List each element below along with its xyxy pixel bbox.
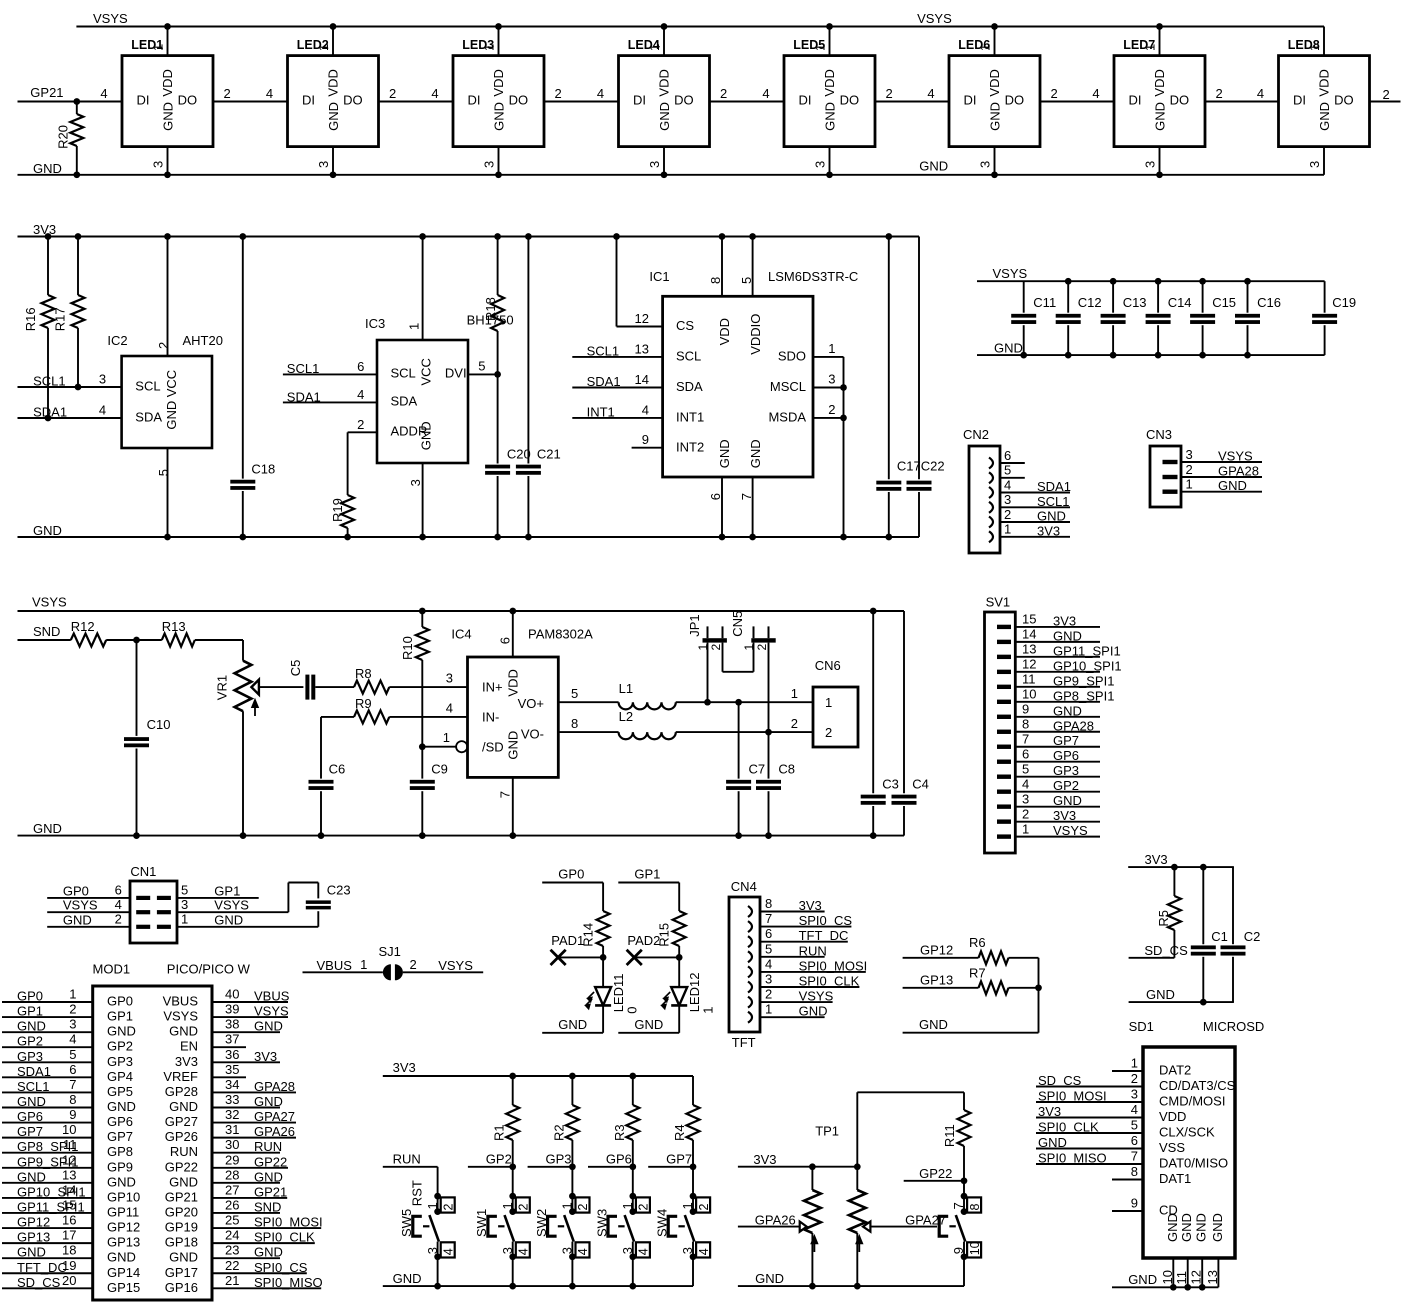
wire GND (LED12) — [618, 1032, 679, 1034]
junction 3V3/IC2 — [164, 233, 171, 240]
junction GND/pot2 — [854, 1283, 861, 1290]
connector SV1 pin 3 pad — [997, 804, 1011, 808]
inductor L1 — [619, 681, 676, 709]
svg-text:R12: R12 — [71, 619, 95, 634]
svg-text:2: 2 — [1186, 462, 1193, 477]
svg-text:R6: R6 — [969, 935, 986, 950]
wire SDO/MSCL/MSDA tie — [813, 356, 844, 358]
junction 3V3/IC3 — [419, 233, 426, 240]
junction SW3 pin top — [629, 1193, 636, 1200]
switch SW4 — [655, 1197, 711, 1257]
wire INT1 to IC1 — [572, 417, 662, 419]
svg-text:JP1: JP1 — [687, 614, 702, 636]
svg-text:1: 1 — [407, 323, 422, 330]
svg-text:2: 2 — [441, 1204, 455, 1211]
solder jumper SJ1 — [360, 944, 417, 980]
svg-text:GND: GND — [1165, 1213, 1180, 1242]
svg-text:CN3: CN3 — [1146, 427, 1172, 442]
wire SW1 to GND — [512, 1257, 514, 1286]
wire CN4 pin 3 — [760, 986, 859, 988]
junction pin bottom — [961, 1253, 968, 1260]
svg-text:VBUS: VBUS — [317, 958, 353, 973]
junction GND/IC4 — [509, 832, 516, 839]
inductor L2 — [619, 709, 676, 739]
svg-text:GP3: GP3 — [107, 1054, 133, 1069]
svg-text:R2: R2 — [551, 1124, 566, 1141]
svg-text:IC2: IC2 — [107, 333, 127, 348]
svg-text:CD/DAT3/CS: CD/DAT3/CS — [1159, 1078, 1236, 1093]
svg-text:GP26: GP26 — [165, 1129, 198, 1144]
wire CN1 pin5 stub — [177, 897, 259, 899]
svg-text:GND: GND — [994, 341, 1023, 356]
wire SV1 pin 3 — [1015, 806, 1100, 808]
switch SW1 pin stubs — [512, 1196, 514, 1212]
svg-text:15: 15 — [1022, 612, 1036, 627]
wire CN4 pin 1 — [760, 1016, 825, 1018]
svg-text:SDA1: SDA1 — [17, 1064, 51, 1079]
wire GND SD1 — [1112, 1286, 1218, 1288]
resistor R19 — [330, 495, 354, 537]
junction VSYS/LED1 — [164, 23, 171, 30]
svg-text:3V3: 3V3 — [1145, 852, 1168, 867]
wire SD1 pin 9 CD — [1112, 1210, 1143, 1212]
svg-text:C7: C7 — [749, 762, 766, 777]
svg-text:GP14: GP14 — [107, 1265, 140, 1280]
resistor R14 — [580, 911, 609, 957]
resistor R1 — [492, 1076, 520, 1167]
LED LED12 — [662, 973, 716, 1014]
svg-text:GND: GND — [164, 401, 179, 430]
svg-text:VBUS: VBUS — [254, 989, 290, 1004]
capacitor C3 — [861, 611, 899, 836]
junction 3V3/R18 — [494, 233, 501, 240]
svg-text:2: 2 — [389, 86, 396, 101]
connector SV1 pin 5 pad — [997, 775, 1011, 779]
svg-text:6: 6 — [1022, 747, 1029, 762]
IC U IC2 AHT20 — [99, 333, 223, 476]
svg-text:SD1: SD1 — [1129, 1019, 1154, 1034]
wire CN4 pin 7 — [760, 926, 851, 928]
svg-text:1: 1 — [181, 912, 188, 927]
svg-text:VSYS: VSYS — [63, 898, 98, 913]
wire GP3 — [528, 1166, 573, 1168]
junction 3V3/R3 — [629, 1073, 636, 1080]
wire IC2 GND pin5 — [167, 448, 169, 537]
svg-text:GND: GND — [254, 1245, 283, 1260]
svg-text:1: 1 — [1186, 477, 1193, 492]
svg-text:GND: GND — [63, 912, 92, 927]
junction VSYS/C3 — [870, 608, 877, 615]
svg-text:GND: GND — [1152, 102, 1167, 131]
capacitor C9 — [410, 747, 448, 836]
svg-text:5: 5 — [478, 359, 485, 374]
svg-text:IC3: IC3 — [365, 316, 385, 331]
svg-text:VSYS: VSYS — [1053, 823, 1088, 838]
wire VSYS rail top — [76, 26, 1324, 28]
wire R11 to TP1 switch — [963, 1181, 965, 1196]
svg-text:GP7: GP7 — [666, 1152, 692, 1167]
junction 3V3/VDD — [719, 233, 726, 240]
junction VSYS/IC4 — [509, 608, 516, 615]
svg-text:12: 12 — [1189, 1270, 1204, 1284]
svg-text:GP22: GP22 — [165, 1159, 198, 1174]
svg-text:2: 2 — [886, 86, 893, 101]
wire R9 to C6 — [321, 716, 354, 718]
svg-text:1: 1 — [1142, 44, 1157, 51]
junction SD1 GND pin 12 — [1199, 1284, 1206, 1291]
svg-text:GP2: GP2 — [486, 1152, 512, 1167]
svg-text:R5: R5 — [1156, 910, 1171, 927]
svg-text:PAD2: PAD2 — [627, 933, 660, 948]
wire SW2 to GND — [571, 1257, 573, 1286]
svg-text:C13: C13 — [1123, 295, 1147, 310]
svg-text:PICO/PICO W: PICO/PICO W — [167, 962, 251, 977]
svg-text:7: 7 — [765, 911, 772, 926]
junction SW4 pivot — [690, 1208, 697, 1215]
wire MOD1 pin 2 — [2, 1016, 93, 1018]
svg-text:SPI0_MOSI: SPI0_MOSI — [1038, 1089, 1107, 1104]
svg-text:SV1: SV1 — [986, 595, 1011, 610]
svg-text:3: 3 — [647, 161, 662, 168]
svg-text:GND: GND — [33, 161, 62, 176]
svg-text:GND: GND — [1053, 793, 1082, 808]
svg-text:16: 16 — [62, 1213, 76, 1228]
svg-text:GND: GND — [17, 1169, 46, 1184]
wire CN2 pin 2 — [1000, 521, 1070, 523]
svg-text:1: 1 — [825, 695, 832, 710]
wire SD1 pin 1 — [1112, 1070, 1143, 1072]
junction GP7/R4 — [690, 1163, 697, 1170]
junction GP6/R3 — [629, 1163, 636, 1170]
svg-text:C16: C16 — [1257, 295, 1281, 310]
svg-text:2: 2 — [357, 417, 364, 432]
resistor R2 — [551, 1076, 579, 1167]
junction GND/C21 — [525, 534, 532, 541]
wire SV1 pin 12 — [1015, 671, 1100, 673]
junction GP21/R20 — [73, 98, 80, 105]
svg-text:C3: C3 — [882, 777, 899, 792]
svg-text:1: 1 — [1307, 44, 1322, 51]
switch SW1 — [474, 1197, 530, 1257]
svg-text:GP0: GP0 — [107, 994, 133, 1009]
wire MOD1 pin 31 — [212, 1137, 296, 1139]
svg-text:3V3: 3V3 — [1038, 1104, 1061, 1119]
svg-text:GP8_SPI1: GP8_SPI1 — [1053, 688, 1114, 703]
svg-text:GP15: GP15 — [107, 1280, 140, 1295]
svg-text:2: 2 — [115, 912, 122, 927]
svg-text:VSYS: VSYS — [32, 595, 67, 610]
svg-text:4: 4 — [357, 387, 364, 402]
IC U IC4 PAM8302A — [443, 627, 593, 799]
LED module LED6 — [927, 27, 1057, 175]
svg-text:INT1: INT1 — [676, 409, 704, 424]
wire GP7 — [648, 1166, 693, 1168]
wire SD1 GND pin 11 — [1187, 1258, 1189, 1287]
svg-text:8: 8 — [1022, 717, 1029, 732]
svg-text:2: 2 — [825, 725, 832, 740]
junction 3V3/R2 — [569, 1073, 576, 1080]
svg-text:26: 26 — [225, 1197, 239, 1212]
junction 3V3/R16 — [45, 233, 52, 240]
wire MOD1 pin 35 — [212, 1076, 246, 1078]
capacitor C19 — [1312, 281, 1356, 355]
svg-text:R18: R18 — [483, 297, 498, 321]
svg-text:GND: GND — [634, 1017, 663, 1032]
svg-text:R20: R20 — [55, 125, 70, 149]
junction VSYS/LED4 — [661, 23, 668, 30]
wire CN5 pin2 down — [768, 643, 770, 733]
svg-text:C9: C9 — [431, 762, 448, 777]
svg-text:GND: GND — [822, 102, 837, 131]
wire R2 to SW2 — [571, 1167, 573, 1196]
svg-text:3: 3 — [1004, 492, 1011, 507]
switch SW3 — [594, 1197, 650, 1257]
svg-text:17: 17 — [62, 1228, 76, 1243]
junction GND/C3 — [870, 832, 877, 839]
wire SW3 to GND — [632, 1257, 634, 1286]
wire GP13 — [903, 987, 979, 989]
svg-text:3: 3 — [316, 161, 331, 168]
wire SV1 pin 9 — [1015, 716, 1100, 718]
svg-text:8: 8 — [1131, 1164, 1138, 1179]
connector SV1 pin 9 pad — [997, 715, 1011, 719]
svg-text:1: 1 — [828, 341, 835, 356]
svg-text:DAT2: DAT2 — [1159, 1063, 1191, 1078]
junction SW3 pivot — [629, 1208, 636, 1215]
resistor R12 — [71, 619, 106, 647]
potentiometer GPA26 wiper arrow — [800, 1222, 807, 1232]
wire JP1 pin1 down — [707, 643, 709, 703]
svg-text:GND: GND — [107, 1174, 136, 1189]
svg-text:GND: GND — [393, 1271, 422, 1286]
svg-text:6: 6 — [765, 926, 772, 941]
svg-text:1: 1 — [812, 44, 827, 51]
svg-text:GND: GND — [919, 159, 948, 174]
svg-text:1: 1 — [360, 957, 367, 972]
svg-text:3: 3 — [181, 897, 188, 912]
wire IC1 VDD pin8 — [721, 237, 723, 297]
wire SJ1 to VSYS — [403, 971, 483, 973]
junction 3V3/R1 — [509, 1073, 516, 1080]
svg-text:DO: DO — [1334, 93, 1354, 108]
svg-text:6: 6 — [357, 359, 364, 374]
wire SW5 to GND — [437, 1257, 439, 1286]
svg-text:3V3: 3V3 — [254, 1049, 277, 1064]
svg-text:2: 2 — [576, 1204, 590, 1211]
svg-text:GND: GND — [33, 523, 62, 538]
svg-text:GP11: GP11 — [107, 1204, 139, 1219]
wire GND rail sensors — [18, 536, 920, 538]
junction GND/SW5 — [434, 1283, 441, 1290]
svg-text:GND: GND — [657, 102, 672, 131]
svg-text:R8: R8 — [355, 666, 372, 681]
wire IC1 GND pin7 — [752, 477, 754, 537]
svg-text:37: 37 — [225, 1032, 239, 1047]
svg-text:R13: R13 — [162, 619, 186, 634]
svg-text:2: 2 — [697, 1204, 711, 1211]
junction GND/LED2 — [330, 171, 337, 178]
capacitor C4 — [892, 611, 929, 836]
capacitor C1 — [1191, 867, 1228, 1002]
wire SV1 pin 11 — [1015, 686, 1100, 688]
svg-text:GPA26: GPA26 — [254, 1124, 295, 1139]
connector CN6 — [791, 658, 858, 747]
svg-text:GP19: GP19 — [165, 1220, 198, 1235]
svg-text:GP3: GP3 — [17, 1049, 43, 1064]
svg-text:9: 9 — [642, 432, 649, 447]
wire MOD1 pin 7 — [2, 1091, 93, 1093]
svg-text:2: 2 — [791, 716, 798, 731]
svg-text:VDD: VDD — [506, 669, 521, 696]
capacitor C13 — [1101, 281, 1147, 355]
svg-text:TFT_DC: TFT_DC — [799, 928, 849, 943]
wire SD1 pin 5 — [1036, 1132, 1143, 1134]
svg-text:10: 10 — [1022, 687, 1036, 702]
resistor R15 — [657, 911, 686, 957]
connector CN4 pin 3 hook — [748, 982, 752, 993]
junction VSYS/LED3 — [495, 23, 502, 30]
svg-text:GP2: GP2 — [107, 1039, 133, 1054]
svg-text:GND: GND — [1037, 509, 1066, 524]
svg-text:1: 1 — [443, 730, 450, 745]
wire GP0 branch top — [542, 882, 603, 884]
svg-text:4: 4 — [642, 402, 649, 417]
svg-text:GP8: GP8 — [107, 1144, 133, 1159]
junction SW1 pin bottom — [509, 1253, 516, 1260]
svg-text:VDD: VDD — [1152, 69, 1167, 96]
svg-text:GND: GND — [107, 1024, 136, 1039]
svg-text:10: 10 — [968, 1241, 982, 1255]
svg-text:DI: DI — [468, 93, 481, 108]
svg-text:2: 2 — [156, 342, 171, 349]
svg-text:VDD: VDD — [822, 69, 837, 96]
svg-text:GP3: GP3 — [545, 1152, 571, 1167]
svg-text:DO: DO — [1005, 93, 1025, 108]
svg-text:4: 4 — [69, 1032, 76, 1047]
svg-text:MSDA: MSDA — [768, 409, 806, 424]
LED module LED5 — [762, 27, 892, 175]
capacitor C8 — [756, 732, 795, 836]
svg-text:3: 3 — [978, 161, 993, 168]
svg-text:CN4: CN4 — [731, 879, 757, 894]
connector SV1 pin 11 pad — [997, 685, 1011, 689]
capacitor C12 — [1056, 281, 1102, 355]
junction R6/R7 — [1035, 984, 1042, 991]
wire CN4 pin 4 — [760, 971, 866, 973]
svg-text:GP13: GP13 — [920, 973, 953, 988]
svg-text:3: 3 — [1131, 1087, 1138, 1102]
svg-text:SPI0_CS: SPI0_CS — [799, 913, 853, 928]
capacitor C22 — [907, 237, 945, 538]
svg-text:C2: C2 — [1244, 929, 1261, 944]
svg-text:1: 1 — [765, 1002, 772, 1017]
svg-text:SCL1: SCL1 — [1037, 494, 1070, 509]
svg-text:32: 32 — [225, 1107, 239, 1122]
wire MOD1 pin 22 — [212, 1272, 307, 1274]
svg-text:VSYS: VSYS — [163, 1009, 198, 1024]
wire GND (R6/R7) — [903, 1032, 1039, 1034]
wire DO-DI link — [875, 101, 949, 103]
svg-text:GND: GND — [1210, 1213, 1225, 1242]
wire MOD1 pin 21 — [212, 1287, 321, 1289]
svg-text:2: 2 — [765, 987, 772, 1002]
wire MOD1 pin 12 — [2, 1167, 93, 1169]
connector CN4 pin 5 hook — [748, 951, 752, 962]
svg-text:VSYS: VSYS — [93, 11, 128, 26]
svg-text:SPI0_MISO: SPI0_MISO — [1038, 1151, 1107, 1166]
wire SD1 pin 3 — [1036, 1101, 1143, 1103]
connector SV1 pin 8 pad — [997, 730, 1011, 734]
resistor R4 — [672, 1076, 700, 1167]
junction 3V3/C17 — [885, 233, 892, 240]
svg-text:VSYS: VSYS — [917, 11, 952, 26]
svg-text:0: 0 — [625, 1007, 640, 1014]
junction GND/C14 — [1155, 352, 1162, 359]
potentiometer GPA26 body — [804, 1167, 821, 1286]
svg-text:R19: R19 — [330, 498, 345, 522]
wire CN2 pin 5 — [1000, 477, 1025, 479]
svg-text:GND: GND — [418, 421, 433, 450]
svg-text:GP6: GP6 — [1053, 748, 1079, 763]
junction SD1 GND pin 11 — [1184, 1284, 1191, 1291]
svg-text:DI: DI — [964, 93, 977, 108]
svg-text:GP18: GP18 — [165, 1235, 198, 1250]
wire DO-DI link — [710, 101, 784, 103]
connector SV1 pin 1 pad — [997, 834, 1011, 838]
junction SW5 pin bottom — [434, 1253, 441, 1260]
wire 3V3 SD — [1128, 866, 1234, 868]
svg-text:CMD/MOSI: CMD/MOSI — [1159, 1094, 1225, 1109]
junction GND/pot1 — [809, 1283, 816, 1290]
svg-text:29: 29 — [225, 1152, 239, 1167]
junction GND/C20 — [494, 534, 501, 541]
wire GP1 branch top — [618, 882, 679, 884]
svg-text:3: 3 — [813, 161, 828, 168]
junction SW5 pin top — [434, 1193, 441, 1200]
connector SV1 pin 7 pad — [997, 745, 1011, 749]
junction VSYS/R10 — [419, 608, 426, 615]
svg-text:8: 8 — [708, 277, 723, 284]
junction GND/C13 — [1110, 352, 1117, 359]
svg-text:4: 4 — [697, 1248, 711, 1255]
svg-text:GND: GND — [1053, 703, 1082, 718]
junction GP2/R1 — [509, 1163, 516, 1170]
wire MOD1 pin 39 — [212, 1016, 288, 1018]
wire MOD1 pin 30 — [212, 1152, 280, 1154]
svg-text:3: 3 — [151, 161, 166, 168]
wire GPA26 wiper — [738, 1226, 800, 1228]
wire SW4 to GND — [692, 1257, 694, 1286]
svg-text:R7: R7 — [969, 965, 986, 980]
svg-text:R9: R9 — [355, 696, 372, 711]
capacitor C7 — [726, 702, 765, 835]
junction GND/VR1 — [240, 832, 247, 839]
svg-text:4: 4 — [441, 1248, 455, 1255]
svg-text:3: 3 — [99, 372, 106, 387]
connector CN4 — [729, 879, 760, 1050]
wire MOD1 pin 37 — [212, 1046, 246, 1048]
svg-text:2: 2 — [720, 86, 727, 101]
capacitor C10 — [124, 640, 170, 836]
svg-text:MOD1: MOD1 — [93, 962, 131, 977]
junction GND/C1 — [1200, 999, 1207, 1006]
junction GND/SW2 — [569, 1283, 576, 1290]
wire GP21 — [18, 101, 123, 103]
svg-text:VDD: VDD — [491, 69, 506, 96]
wire MOD1 pin 18 — [2, 1257, 93, 1259]
switch SW5 pin stubs — [437, 1196, 439, 1212]
wire 3V3 TP1 — [738, 1166, 857, 1168]
